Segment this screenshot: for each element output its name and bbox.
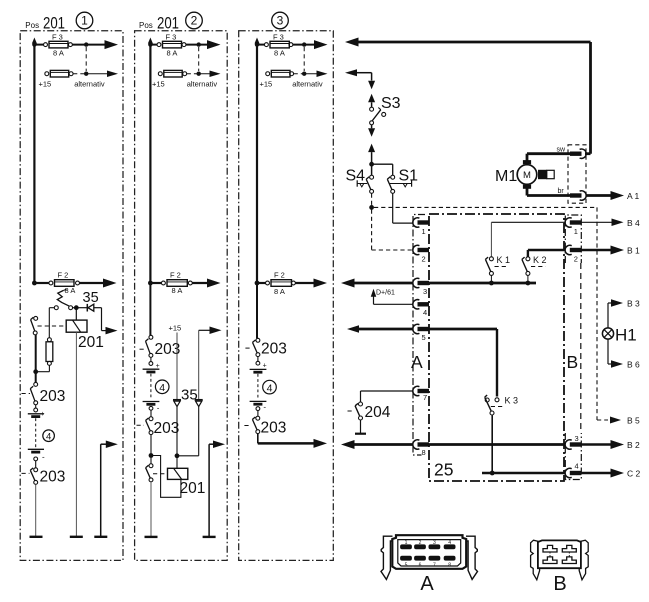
svg-text:A: A: [411, 352, 423, 372]
svg-text:+15: +15: [260, 80, 273, 89]
fuse F2 (box 1): [32, 271, 79, 296]
svg-text:A 1: A 1: [627, 191, 640, 201]
dashed wire junction down to pin 2: [372, 210, 413, 251]
connector pin A7: [413, 386, 429, 402]
svg-text:201: 201: [43, 15, 65, 33]
battery - terminal (box 1): [28, 449, 45, 467]
wire alternativ output with arrow (box 3): [292, 70, 327, 88]
wire F2 output with arrow (box 3): [295, 279, 327, 288]
svg-text:br: br: [558, 188, 565, 195]
dashed battery middle (box 1): [35, 418, 37, 447]
dashed link to alternativ row (box 3): [303, 47, 305, 71]
svg-text:3: 3: [433, 540, 436, 546]
dashed battery middle (box 3): [257, 374, 259, 399]
wire F3 output with arrow (box 3): [293, 40, 328, 49]
dashed link to alternativ row (box 1): [85, 47, 87, 71]
svg-text:203: 203: [261, 419, 287, 436]
wire S1 to pin 1: [393, 194, 413, 224]
label Pos 201 (box 2): [139, 15, 179, 33]
wire pin 5 row to K3: [347, 325, 497, 396]
diode 35 left (box 2): [173, 387, 198, 407]
fuse F2 (box 2): [148, 271, 192, 295]
circled number 4 (box 1): [43, 430, 55, 443]
diode 35 right (box 2): [195, 400, 203, 407]
connector pin sw: [570, 149, 591, 158]
label B5: [627, 416, 640, 426]
svg-text:K 2: K 2: [533, 255, 547, 265]
terminal bar below 204: [355, 420, 366, 434]
contact K1: [485, 222, 510, 281]
relay 201 coil (box 2): [168, 468, 206, 497]
connector pin B4: [565, 462, 581, 478]
label B: [567, 352, 579, 372]
svg-text:7: 7: [423, 393, 427, 402]
ground bar terminals (box 2): [145, 536, 216, 538]
wire F3 output with arrow (box 1): [72, 40, 118, 49]
connector pin B1: [565, 218, 581, 236]
svg-text:4: 4: [448, 540, 451, 546]
switch 204: [348, 402, 391, 421]
wire to switch chain: [345, 69, 372, 80]
switch S3: [370, 95, 401, 125]
connector B housing: [531, 540, 589, 580]
svg-text:1: 1: [405, 540, 408, 546]
svg-text:2: 2: [191, 14, 198, 28]
svg-text:8 A: 8 A: [167, 49, 178, 58]
wire relay 201 to ground bar (box 1): [75, 332, 77, 536]
battery + terminal (box 2): [143, 357, 160, 372]
wire F3 output with arrow (box 2): [186, 40, 221, 49]
label +15 (box 2): [169, 324, 182, 333]
svg-text:4: 4: [46, 432, 51, 443]
dashed link to alternativ row (box 2): [198, 47, 200, 71]
wire pin 7 to switch 204: [361, 391, 413, 402]
dashed actuation link to relay 201 (box 1): [38, 325, 67, 327]
dashed actuation link to relay 201 (box 2): [153, 473, 167, 475]
svg-text:5: 5: [422, 333, 426, 342]
connector pin A4: [413, 300, 429, 317]
svg-text:201: 201: [78, 334, 104, 351]
wire alternativ output with arrow (box 2): [187, 70, 221, 88]
svg-text:6: 6: [419, 563, 422, 569]
wire resistor to bus junction (box 1): [33, 369, 49, 374]
output wire with arrow (box 1 right): [101, 440, 118, 536]
svg-text:7: 7: [433, 563, 436, 569]
bus lower segment (box 3): [256, 283, 258, 338]
wire motor sw terminal: [527, 147, 572, 164]
switch 203 upper (box 1): [22, 382, 66, 405]
svg-text:3: 3: [423, 287, 427, 296]
connector pin B3: [565, 434, 581, 449]
label A: [411, 352, 423, 372]
connector pin A5: [413, 324, 429, 342]
svg-text:alternativ: alternativ: [292, 80, 323, 89]
label B (connector drawing): [553, 573, 566, 595]
motor M1: [495, 161, 554, 189]
contact K2: [522, 250, 565, 281]
switch S4: [346, 168, 374, 194]
ground bar terminals (box 1): [30, 536, 108, 538]
output wire with arrow (box 2 right): [209, 440, 225, 536]
svg-text:F 3: F 3: [166, 32, 177, 41]
circled number 1: [76, 12, 93, 29]
diode 35 (box 1): [83, 290, 99, 312]
switch in line (box 2 lower): [146, 458, 153, 482]
svg-text:F 2: F 2: [274, 271, 285, 280]
resistor (box 1): [46, 308, 53, 372]
svg-text:8 A: 8 A: [274, 49, 285, 58]
wire diode2 to coil junction (box 2): [177, 407, 199, 456]
wire to junction (box 2): [149, 435, 154, 458]
svg-text:Pos: Pos: [139, 21, 153, 30]
connector A housing: [381, 535, 478, 579]
wire K1 to pin B1 / B4 output: [491, 218, 640, 228]
wire B2 row: [341, 440, 640, 450]
fuse alternativ +15 (box 3): [260, 70, 294, 88]
circled number 4 (box 2): [155, 380, 169, 394]
connector pin A3: [413, 278, 429, 296]
bus wire (box 2): [148, 38, 153, 284]
svg-text:B 5: B 5: [627, 416, 640, 426]
svg-text:B 4: B 4: [627, 218, 640, 228]
svg-text:5: 5: [405, 563, 408, 569]
switch 203 upper (box 3): [245, 338, 286, 357]
battery - terminal (box 2): [143, 402, 160, 413]
connector B bracket lower: [565, 433, 581, 480]
battery + terminal (box 3): [250, 357, 267, 373]
svg-text:+15: +15: [152, 80, 165, 89]
svg-text:4: 4: [423, 308, 427, 317]
wire B6 output: [608, 360, 640, 370]
svg-text:8 A: 8 A: [172, 286, 183, 295]
fuse F3 (box 1): [32, 32, 72, 57]
svg-text:1: 1: [81, 14, 88, 28]
lamp H1: [602, 303, 636, 364]
svg-text:B: B: [553, 573, 566, 595]
svg-text:3: 3: [277, 14, 284, 28]
junction node (box 1 relay top): [73, 305, 87, 310]
connector pin A2: [413, 245, 429, 263]
svg-text:8 A: 8 A: [53, 49, 64, 58]
switch 203 upper (box 2): [140, 335, 181, 358]
switch S1: [387, 168, 418, 194]
svg-text:1: 1: [422, 227, 426, 236]
svg-text:F 2: F 2: [170, 271, 181, 280]
wire alternativ output with arrow (box 1): [73, 70, 118, 88]
svg-text:1: 1: [574, 227, 578, 236]
connector B dashed continuation: [580, 263, 582, 433]
wire diode to relay coil (box 2): [175, 407, 180, 469]
switch 203 lower (box 2): [137, 410, 180, 437]
svg-text:B: B: [567, 352, 579, 372]
dashed box around sw br connector: [568, 145, 586, 203]
svg-text:H1: H1: [615, 326, 637, 345]
connector pin br / wire A1: [570, 191, 640, 201]
svg-text:alternativ: alternativ: [187, 80, 218, 89]
wire pin 3 row: [341, 279, 536, 288]
fuse alternativ +15 (box 1): [39, 70, 74, 88]
svg-text:-: -: [263, 403, 266, 412]
svg-text:2: 2: [419, 540, 422, 546]
contact K3: [485, 395, 518, 415]
circled number 3: [272, 12, 289, 29]
wire K3 down to C2 line: [490, 415, 495, 475]
circled number 2: [186, 12, 203, 29]
connector A bracket: [413, 215, 425, 456]
inline connector pair lower: [368, 125, 375, 162]
switch in bus line (box 1): [31, 316, 38, 334]
svg-text:203: 203: [154, 420, 180, 437]
junction node above S4: [369, 162, 393, 175]
label A (connector drawing): [420, 573, 434, 595]
long dashed wire to B5: [374, 207, 621, 423]
bus wire (box 1): [32, 38, 37, 284]
dashed battery middle (box 2): [150, 374, 152, 400]
svg-text:F 3: F 3: [52, 32, 63, 41]
connector B pin slots: [543, 545, 576, 563]
bus wire (box 3): [255, 38, 260, 284]
svg-text:25: 25: [434, 460, 453, 480]
svg-text:C 2: C 2: [627, 469, 641, 479]
svg-text:4: 4: [159, 382, 165, 394]
svg-text:S1: S1: [399, 168, 419, 185]
svg-text:8 A: 8 A: [65, 286, 76, 295]
svg-text:+15: +15: [39, 80, 52, 89]
inline connector pair upper: [368, 81, 375, 107]
svg-text:201: 201: [180, 480, 206, 497]
wire C2 row: [482, 469, 641, 479]
wire to ground bar (box 2): [150, 482, 152, 537]
svg-text:M: M: [523, 170, 531, 181]
bus lower segment (box 2): [149, 283, 151, 335]
svg-text:8: 8: [448, 563, 451, 569]
module box 25 dash-dot border: [429, 214, 564, 481]
wire to ground bar left (box 1): [35, 485, 37, 537]
thermal switch contact (box 1): [49, 289, 72, 309]
wire from diode to arrow (box 1): [94, 308, 118, 335]
switch 203 lower (box 3): [244, 411, 286, 437]
fuse F3 (box 3): [255, 32, 293, 57]
loop wire junction to relay bottom (box 2): [151, 456, 181, 498]
dashed wire S4 to junction: [369, 194, 374, 210]
wire arrow branch (box 2): [199, 327, 222, 400]
svg-text:203: 203: [261, 340, 287, 357]
relay 201 coil (box 1): [66, 308, 104, 351]
svg-text:203: 203: [155, 341, 181, 358]
svg-text:F 3: F 3: [273, 32, 284, 41]
svg-text:+15: +15: [169, 324, 182, 333]
battery + terminal (box 1): [28, 405, 45, 418]
fuse F3 (box 2): [148, 32, 186, 57]
connector pin B2: [565, 245, 581, 263]
connector pin A1: [413, 218, 429, 236]
output wire with arrow (box 3): [258, 434, 327, 448]
svg-text:2: 2: [574, 255, 578, 264]
svg-text:8 A: 8 A: [274, 287, 285, 296]
wire F2 output with arrow (box 1): [80, 279, 117, 288]
svg-text:4: 4: [575, 462, 579, 471]
connector B bracket upper: [565, 215, 581, 263]
battery - terminal (box 3): [250, 401, 267, 411]
svg-text:B 2: B 2: [627, 440, 640, 450]
svg-text:B 3: B 3: [627, 299, 640, 309]
wire D+/61: [371, 289, 413, 305]
wire motor br terminal: [527, 185, 572, 196]
wire +15 to diode (box 2): [176, 333, 178, 400]
svg-text:-: -: [42, 453, 45, 462]
svg-text:S3: S3: [381, 95, 401, 112]
svg-text:8: 8: [422, 448, 426, 457]
dash-dot enclosure box 2: [135, 31, 228, 561]
connector A pin slots: [401, 540, 455, 568]
svg-text:203: 203: [40, 469, 66, 486]
svg-text:203: 203: [40, 388, 66, 405]
svg-text:F 2: F 2: [58, 271, 69, 280]
svg-text:B 1: B 1: [627, 246, 640, 256]
svg-text:D+/61: D+/61: [376, 290, 395, 297]
svg-text:B 6: B 6: [627, 360, 640, 370]
bus lower segment (box 1): [35, 335, 37, 383]
dash-dot enclosure box 3: [239, 31, 334, 561]
circled number 4 (box 3): [263, 380, 277, 394]
svg-text:sw: sw: [557, 147, 567, 154]
top long wire to motor: [345, 38, 591, 154]
svg-text:204: 204: [365, 404, 391, 421]
wire B1 output: [581, 246, 640, 256]
fuse F2 (box 3): [255, 271, 296, 296]
label Pos 201 (box 1): [25, 15, 65, 33]
svg-text:S4: S4: [346, 168, 366, 185]
svg-text:4: 4: [267, 382, 273, 394]
svg-text:-: -: [157, 404, 160, 413]
svg-text:2: 2: [422, 255, 426, 264]
switch 203 lower (box 1): [22, 468, 66, 486]
svg-text:3: 3: [575, 434, 579, 443]
svg-text:K 3: K 3: [505, 396, 519, 406]
svg-text:+: +: [41, 411, 45, 418]
svg-text:A: A: [420, 573, 434, 595]
wire F2 output with arrow (box 2): [192, 279, 220, 288]
connector pin A8: [413, 440, 429, 457]
fuse alternativ +15 (box 2): [152, 70, 187, 88]
svg-text:K 1: K 1: [497, 255, 511, 265]
svg-text:M1: M1: [495, 168, 517, 185]
svg-text:35: 35: [83, 290, 99, 306]
svg-text:+: +: [263, 363, 267, 370]
svg-text:Pos: Pos: [25, 21, 39, 30]
svg-text:alternativ: alternativ: [74, 80, 105, 89]
wire B3 output: [608, 299, 640, 309]
svg-text:201: 201: [157, 15, 179, 33]
dash-dot enclosure box 1: [20, 31, 123, 561]
